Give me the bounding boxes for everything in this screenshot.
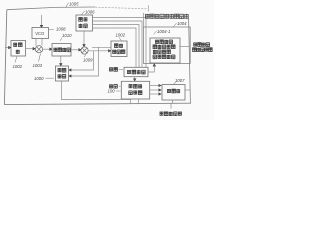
wire: mixer2 output to local-oscillator: [88, 50, 110, 52]
leader for 1010: [60, 38, 62, 41]
box carrier-detect (top): [76, 15, 93, 31]
wire: carrier-detect output 3 to multiplexer: [93, 25, 140, 68]
wire: big box left edge extension up to text: [143, 13, 145, 27]
box divider (left): [11, 41, 26, 57]
wire: divider to mixer1 arrow: [26, 48, 34, 50]
outer frame bottom edge: [4, 103, 191, 104]
right annotation text (two rows): [193, 43, 197, 47]
label 1008 (right of VCO): [49, 28, 55, 30]
wire: carrier-detect output 2 to multiplexer: [93, 21, 143, 67]
big receiver box 1004: [144, 27, 191, 64]
label annotation with dash (left of main-mux): [109, 67, 113, 71]
wire: VCO output left down to mixer1: [35, 39, 37, 46]
outer frame top edge: [7, 7, 95, 10]
outer frame right edge: [189, 19, 191, 104]
box VCO U-vco: [32, 28, 49, 39]
box main-mux: [124, 67, 148, 76]
wire: frame to divider input arrow: [5, 47, 10, 49]
label 1001 (below divider): [15, 57, 17, 63]
box switch (bottom-left small): [56, 66, 69, 81]
wire: vertical drop V1 to switch box: [69, 51, 93, 70]
box controller: [162, 85, 185, 101]
wire: calc box to right annotation: [180, 46, 189, 48]
mixer2 circle with X: [81, 47, 88, 54]
box conversion-loop: [52, 44, 71, 57]
wire: mixer1 to loop box: [43, 48, 51, 50]
arrowhead into local-oscillator: [109, 50, 111, 52]
box freq-synthesizer: [121, 81, 149, 99]
wire: input arrow into VCO from top: [41, 15, 43, 27]
wire: carrier-detect down to mixer2: [83, 31, 85, 46]
wire: carrier-detect output 4 to multiplexer: [93, 28, 137, 67]
leader: [82, 11, 85, 15]
outer frame left edge: [4, 10, 6, 105]
wire: bottom output arrow below frame: [170, 103, 172, 108]
frame top-end nub: [147, 5, 149, 11]
bottom text annotation: [160, 112, 164, 116]
wire: controller to right frame: [185, 89, 190, 91]
label 1003 (below mixer1): [39, 54, 41, 62]
wire: carrier-detect output 1 to multiplexer: [93, 18, 147, 68]
wire: main-mux right edge up into big box: [148, 64, 154, 73]
mixer1 circle with X: [35, 46, 42, 53]
label 1009 (below mixer2): [85, 55, 86, 58]
wire: local-oscillator return line: [92, 46, 111, 48]
box known-sequence calculator: [150, 38, 180, 63]
wire: switch box bottom L-route right: [62, 81, 132, 100]
box local-oscillator: [111, 41, 127, 57]
wire: freq-synth bottom ticks to frame: [129, 99, 131, 103]
wire: loop box down into switch box: [60, 56, 62, 65]
label annotation with dash (left of freq-synth): [109, 84, 113, 88]
wire: controller bottom tick to frame: [171, 100, 173, 103]
wire: VCO output right down to mixer1: [41, 39, 43, 46]
wire: vertical drop V2 to switch box: [69, 47, 98, 76]
top reference text row: [145, 14, 189, 19]
leader for 1005: [66, 3, 69, 8]
wire: main-mux down to freq-synth: [134, 77, 136, 80]
outer frame top edge dashed part: [95, 7, 147, 9]
wires: freq-synth to controller (3 lines): [150, 85, 160, 87]
wire: loop box to mixer2: [71, 49, 80, 51]
